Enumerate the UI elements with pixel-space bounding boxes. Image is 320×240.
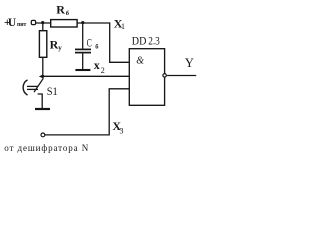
switch S1 bottom contact bbox=[38, 94, 43, 108]
node +Uпит label bbox=[4, 17, 26, 29]
wire top rail bbox=[35, 22, 109, 24]
svg-text:2.3: 2.3 bbox=[148, 35, 160, 47]
node junction Ry top bbox=[41, 21, 44, 24]
ground bar under S1 bbox=[35, 108, 50, 110]
wire Ry vertical bottom to switch node bbox=[42, 57, 44, 76]
svg-text:C: C bbox=[87, 38, 92, 50]
svg-text:x: x bbox=[94, 58, 100, 72]
svg-text:2: 2 bbox=[101, 66, 105, 75]
resistor Rу bbox=[39, 31, 46, 58]
capacitor Cб plates bbox=[75, 48, 91, 50]
switch S1 lever bbox=[34, 78, 43, 92]
svg-text:у: у bbox=[58, 44, 62, 52]
svg-text:+U: +U bbox=[4, 17, 17, 29]
label Cб bbox=[87, 38, 100, 51]
svg-text:R: R bbox=[56, 2, 65, 16]
svg-text:б: б bbox=[95, 43, 99, 50]
node X1 label bbox=[114, 16, 125, 31]
svg-text:1: 1 bbox=[121, 22, 125, 31]
wire capacitor top lead bbox=[82, 23, 84, 49]
svg-text:S1: S1 bbox=[47, 86, 58, 98]
wire X1 riser bbox=[110, 22, 130, 62]
svg-text:от дешифратора N: от дешифратора N bbox=[4, 143, 89, 153]
wire capacitor bottom lead bbox=[82, 53, 84, 69]
svg-text:&: & bbox=[136, 56, 144, 67]
node junction Cб top bbox=[81, 21, 84, 24]
ground bar under Cб bbox=[75, 69, 90, 71]
wire X2 bbox=[43, 75, 130, 77]
svg-text:пит: пит bbox=[17, 22, 26, 28]
svg-text:б: б bbox=[66, 10, 70, 17]
label Rу bbox=[50, 37, 63, 52]
terminal (decoder input connector) bbox=[41, 133, 45, 137]
svg-text:Y: Y bbox=[185, 56, 194, 70]
terminal (supply connector) bbox=[31, 20, 35, 24]
resistor Rб bbox=[51, 20, 77, 27]
switch S1 actuator link lines bbox=[27, 85, 38, 87]
svg-text:DD: DD bbox=[132, 35, 147, 47]
svg-text:3: 3 bbox=[120, 127, 124, 136]
output inversion bubble bbox=[163, 74, 167, 78]
wire Ry vertical top bbox=[42, 23, 44, 31]
switch S1 actuator bracket bbox=[23, 80, 27, 95]
switch S1 lever arrow tip bbox=[39, 75, 43, 79]
node X3 label bbox=[112, 119, 123, 136]
logic gate DD2.3 body bbox=[129, 49, 164, 106]
node junction S1 top bbox=[41, 75, 44, 78]
wire X3 bottom bbox=[45, 89, 130, 135]
node X2 label bbox=[94, 58, 105, 75]
label Rб bbox=[56, 2, 70, 16]
wire output Y bbox=[167, 75, 196, 77]
